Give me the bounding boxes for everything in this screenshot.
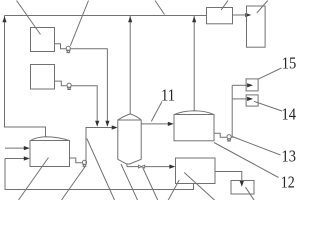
box U1 (top-left unit): [31, 28, 55, 52]
wire: recycle loop left/bottom: [5, 159, 194, 190]
arrow down from U1 drop: [105, 121, 109, 127]
wire: valve V13 riser to boxes: [231, 85, 232, 137]
leader for label 12: [214, 143, 279, 178]
wire: top header line: [5, 15, 207, 17]
valve V1 (circle + bowtie): [66, 46, 70, 50]
wire: valve V4 to box U16: [145, 166, 171, 168]
arrow into column C11: [112, 125, 118, 129]
box U15: [246, 79, 258, 91]
leader into column U19: [257, 1, 268, 13]
arrow into box U14: [247, 97, 253, 101]
wire: box U16 to box U17: [215, 172, 242, 183]
condenser box U18 (top): [207, 8, 233, 24]
leader for box U16 right: [184, 173, 215, 201]
wire: tank T12 top pipe: [193, 16, 195, 111]
leader for riser pipe: [87, 139, 115, 201]
svg-text:11: 11: [161, 85, 175, 104]
box U17 (small bottom-right box): [231, 181, 254, 195]
arrow into tank T10 inlet 1: [24, 146, 30, 150]
svg-text:15: 15: [282, 53, 297, 72]
tank T12 (right tank): [174, 115, 214, 141]
valve V13 (circle + bowtie): [227, 135, 231, 139]
arrow down from U2 drop: [95, 121, 99, 127]
leader into box U1: [17, 1, 41, 35]
leader at header (top centre): [155, 1, 165, 15]
wire: box U2 outlet: [55, 81, 67, 86]
valve V3 (tank T10 outlet): [82, 160, 86, 164]
leader for label 13: [232, 137, 280, 156]
arrow into tank T12: [168, 122, 174, 126]
arrow up on left riser: [2, 16, 6, 22]
wire: tank T10 inlet 1: [5, 147, 26, 149]
arrow into tank T10 inlet 2: [24, 156, 30, 160]
wire: left riser: [5, 16, 46, 137]
leader into box U18: [221, 1, 228, 11]
arrow into box U16: [169, 165, 175, 169]
wire: box U1 outlet: [55, 44, 67, 49]
arrow into column U19: [245, 13, 251, 17]
wire: feed to box U15: [232, 84, 247, 86]
arrow into box U15: [247, 83, 253, 87]
wire: tank T12 outlet: [214, 133, 227, 137]
leader for tank T10: [19, 158, 49, 201]
column U19 (tall rect top-right): [247, 6, 266, 47]
svg-text:12: 12: [281, 173, 295, 192]
arrow up at tank T12 top pipe: [192, 16, 196, 22]
wire: column C11 bottoms outlet: [127, 164, 138, 167]
column C11 vessel body: [118, 120, 141, 164]
leader into valve V1: [70, 1, 88, 46]
box U16 (bottom product box): [176, 158, 216, 184]
leader for valve V3: [62, 167, 85, 200]
leader for label 14: [254, 101, 282, 111]
wire: valve V2 to drop: [71, 86, 97, 121]
wire: tank T10 inlet 2: [5, 158, 26, 160]
wire: column C11 top pipe: [129, 16, 131, 114]
column C11 dome: [118, 114, 141, 120]
arrow down into box U17: [240, 181, 244, 187]
valve V2 (circle + bowtie): [67, 83, 71, 87]
svg-text:13: 13: [281, 147, 296, 166]
wire: box U18 to column U19: [233, 14, 248, 16]
leader for column C11 cone: [121, 164, 138, 200]
leader from box U17: [246, 187, 255, 200]
leader for valve V4: [143, 168, 158, 200]
wire: tank T10 outlet: [70, 158, 83, 163]
leader for label 15: [258, 68, 282, 79]
wire: feed to box U14: [232, 98, 247, 100]
wire: column C11 to tank T12: [141, 123, 170, 125]
box U2 (left middle unit): [31, 65, 55, 90]
wire: valve V3 to riser: [86, 128, 114, 163]
arrow up at column C11 top pipe: [128, 16, 132, 22]
svg-text:14: 14: [281, 104, 296, 123]
leader for box U16 left: [168, 180, 179, 201]
valve V4 (bowtie) on bottoms line: [138, 165, 144, 168]
leader for label 11: [151, 102, 162, 122]
tank T10 (bottom-left tank): [30, 141, 70, 167]
wire: valve V1 to drop: [71, 49, 108, 121]
box U14: [246, 95, 258, 106]
